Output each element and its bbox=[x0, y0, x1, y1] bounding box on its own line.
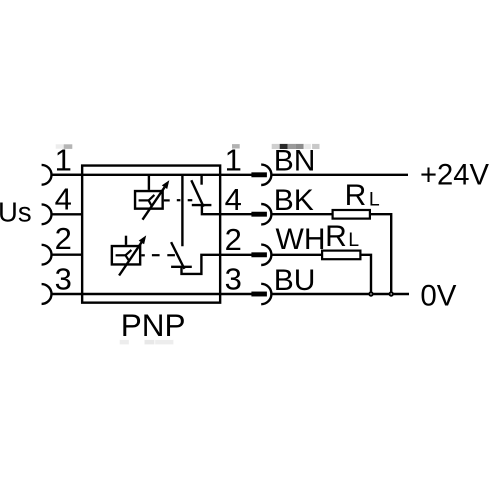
wire +24V rail (pin 1 through box) bbox=[51, 174, 251, 176]
svg-text:L: L bbox=[348, 229, 359, 251]
wire RL1 to 0V rail bbox=[371, 214, 391, 294]
wire BK to resistor RL1 bbox=[271, 213, 331, 215]
sensor body box U1 bbox=[82, 166, 220, 303]
junction node RL2/0V bbox=[369, 292, 372, 295]
svg-text:R: R bbox=[325, 220, 347, 253]
arrowhead of sensor B1 adjust arrow bbox=[162, 180, 170, 189]
resistor RL1 bbox=[333, 210, 370, 219]
socket pin 2 (left) bbox=[42, 245, 52, 265]
wire 0V rail (pin 3 through box) bbox=[51, 293, 251, 295]
svg-text:R: R bbox=[345, 179, 367, 212]
svg-text:+24V: +24V bbox=[420, 159, 490, 191]
svg-text:2: 2 bbox=[225, 222, 242, 257]
artifact band above BN bbox=[272, 144, 320, 149]
junction node RL1/0V bbox=[390, 292, 393, 295]
wire RL2 to 0V rail bbox=[362, 255, 372, 294]
switch contact S1 (top, output pin 4) bbox=[191, 175, 252, 214]
wire pin 4 left bbox=[51, 213, 82, 215]
socket pin 3 (left) bbox=[42, 284, 52, 304]
wire WH to resistor RL2 bbox=[271, 254, 321, 256]
svg-text:BN: BN bbox=[274, 144, 316, 177]
arrowhead of sensor B2 adjust arrow bbox=[139, 235, 147, 244]
plug contact pin 4 (right) bbox=[251, 204, 271, 224]
socket pin 1 (left) bbox=[42, 165, 52, 185]
socket pin 4 (left) bbox=[42, 204, 52, 224]
proximity sensor element B1 (top) bbox=[135, 175, 165, 220]
resistor RL2 bbox=[322, 251, 360, 260]
dashed actuation line B1 to switch S1 bbox=[164, 199, 193, 201]
dashed actuation line B2 to switch S2 bbox=[141, 254, 175, 256]
switch contact S2 (bottom, output pin 2) bbox=[171, 175, 252, 274]
wire BU to 0V bbox=[271, 293, 409, 295]
svg-text:2: 2 bbox=[55, 221, 72, 256]
svg-text:0V: 0V bbox=[420, 279, 456, 312]
svg-text:L: L bbox=[369, 189, 380, 211]
proximity sensor element B2 (bottom) bbox=[112, 236, 142, 276]
artifact marks top left bbox=[56, 144, 73, 149]
svg-text:PNP: PNP bbox=[121, 307, 186, 343]
artifact marks below PNP bbox=[120, 340, 174, 345]
svg-text:4: 4 bbox=[55, 182, 72, 217]
svg-text:4: 4 bbox=[225, 182, 242, 217]
artifact mark top middle bbox=[232, 144, 240, 148]
plug contact pin 3 (right) bbox=[251, 284, 271, 304]
svg-text:BK: BK bbox=[274, 184, 314, 217]
wire pin 1 left bbox=[51, 174, 82, 176]
plug contact pin 2 (right) bbox=[251, 245, 271, 265]
wire pin 2 left bbox=[51, 253, 82, 255]
wire BN to +24V bbox=[271, 174, 408, 176]
svg-text:Us: Us bbox=[0, 196, 32, 227]
svg-text:3: 3 bbox=[55, 262, 72, 297]
plug contact pin 1 (right) bbox=[251, 165, 271, 185]
svg-text:WH: WH bbox=[276, 223, 326, 256]
svg-text:BU: BU bbox=[274, 264, 316, 297]
svg-text:3: 3 bbox=[225, 262, 242, 297]
